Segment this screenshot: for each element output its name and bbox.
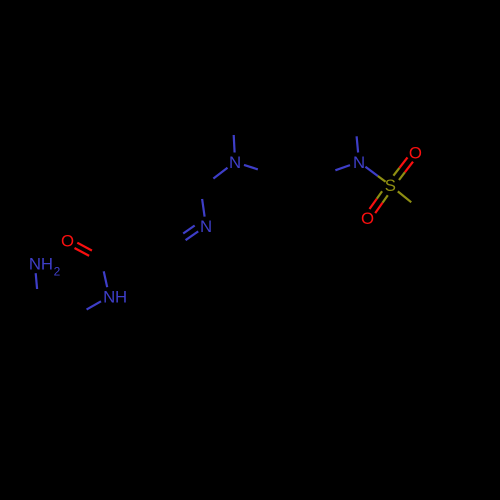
- spiro C to CH2 bond: [272, 139, 297, 174]
- carbonyl C=O double bond: [75, 243, 101, 261]
- pyrrolidine N8-CH2 up bond: [355, 121, 358, 153]
- pyrrolidine CH2-CH2 bond right ring: [318, 103, 355, 119]
- pyrrolidine N8-CH2 left bond: [324, 165, 350, 174]
- svg-text:S: S: [385, 176, 396, 195]
- S=O double bond lower left: [370, 191, 388, 213]
- pyridine C3-C4 bond: [135, 174, 165, 198]
- sulfonamide N-S bond: [365, 167, 385, 182]
- S-CH3 bond: [398, 191, 421, 209]
- spiro C to CH2 bond right ring: [297, 139, 322, 175]
- svg-text:O: O: [61, 232, 74, 251]
- svg-text:N: N: [229, 153, 241, 172]
- pyridine N1-C2 bond: [201, 190, 205, 216]
- pyrrolidine N7-CH2 right bond: [244, 165, 270, 174]
- amide N-CH bond: [78, 301, 101, 314]
- svg-text:O: O: [409, 144, 422, 163]
- svg-text:H: H: [41, 255, 53, 274]
- cyclohexane ring bond c: [33, 372, 71, 378]
- pyridine C2=C3 bond: [165, 174, 200, 188]
- svg-text:N: N: [353, 153, 365, 172]
- pyrrolidine bond to spiro C right ring: [297, 103, 318, 139]
- pyridine C4=C5 bond: [135, 198, 140, 236]
- svg-text:N: N: [103, 287, 115, 306]
- svg-text:N: N: [200, 217, 212, 236]
- svg-text:H: H: [115, 287, 127, 306]
- N7 to pyridine C2 bond: [202, 168, 227, 187]
- cyclohexane ring bond d: [71, 355, 94, 378]
- svg-text:O: O: [361, 209, 374, 228]
- cyclohexane ring bond e: [76, 316, 94, 356]
- pyridine C5-C6 bond: [141, 235, 175, 247]
- pyrrolidine CH2-CH2 bond: [233, 102, 270, 119]
- cyclohexane ring bond a: [15, 300, 38, 333]
- S=O double bond upper right: [393, 157, 413, 180]
- bond C(=O) to pyridine C5: [101, 235, 141, 258]
- pyridine N1=C6 double bond: [177, 226, 199, 247]
- pyrrolidine bond to spiro C: [270, 102, 297, 139]
- cyclohexane ring bond b: [15, 333, 33, 372]
- svg-text:2: 2: [54, 264, 61, 278]
- amide N-C(=O) bond: [101, 261, 107, 287]
- pyrrolidine N7-CH2 up bond: [233, 121, 235, 153]
- bond CH-CH2NH2: [38, 300, 76, 316]
- H2N-CH2 bond: [36, 273, 38, 298]
- svg-text:N: N: [29, 255, 41, 274]
